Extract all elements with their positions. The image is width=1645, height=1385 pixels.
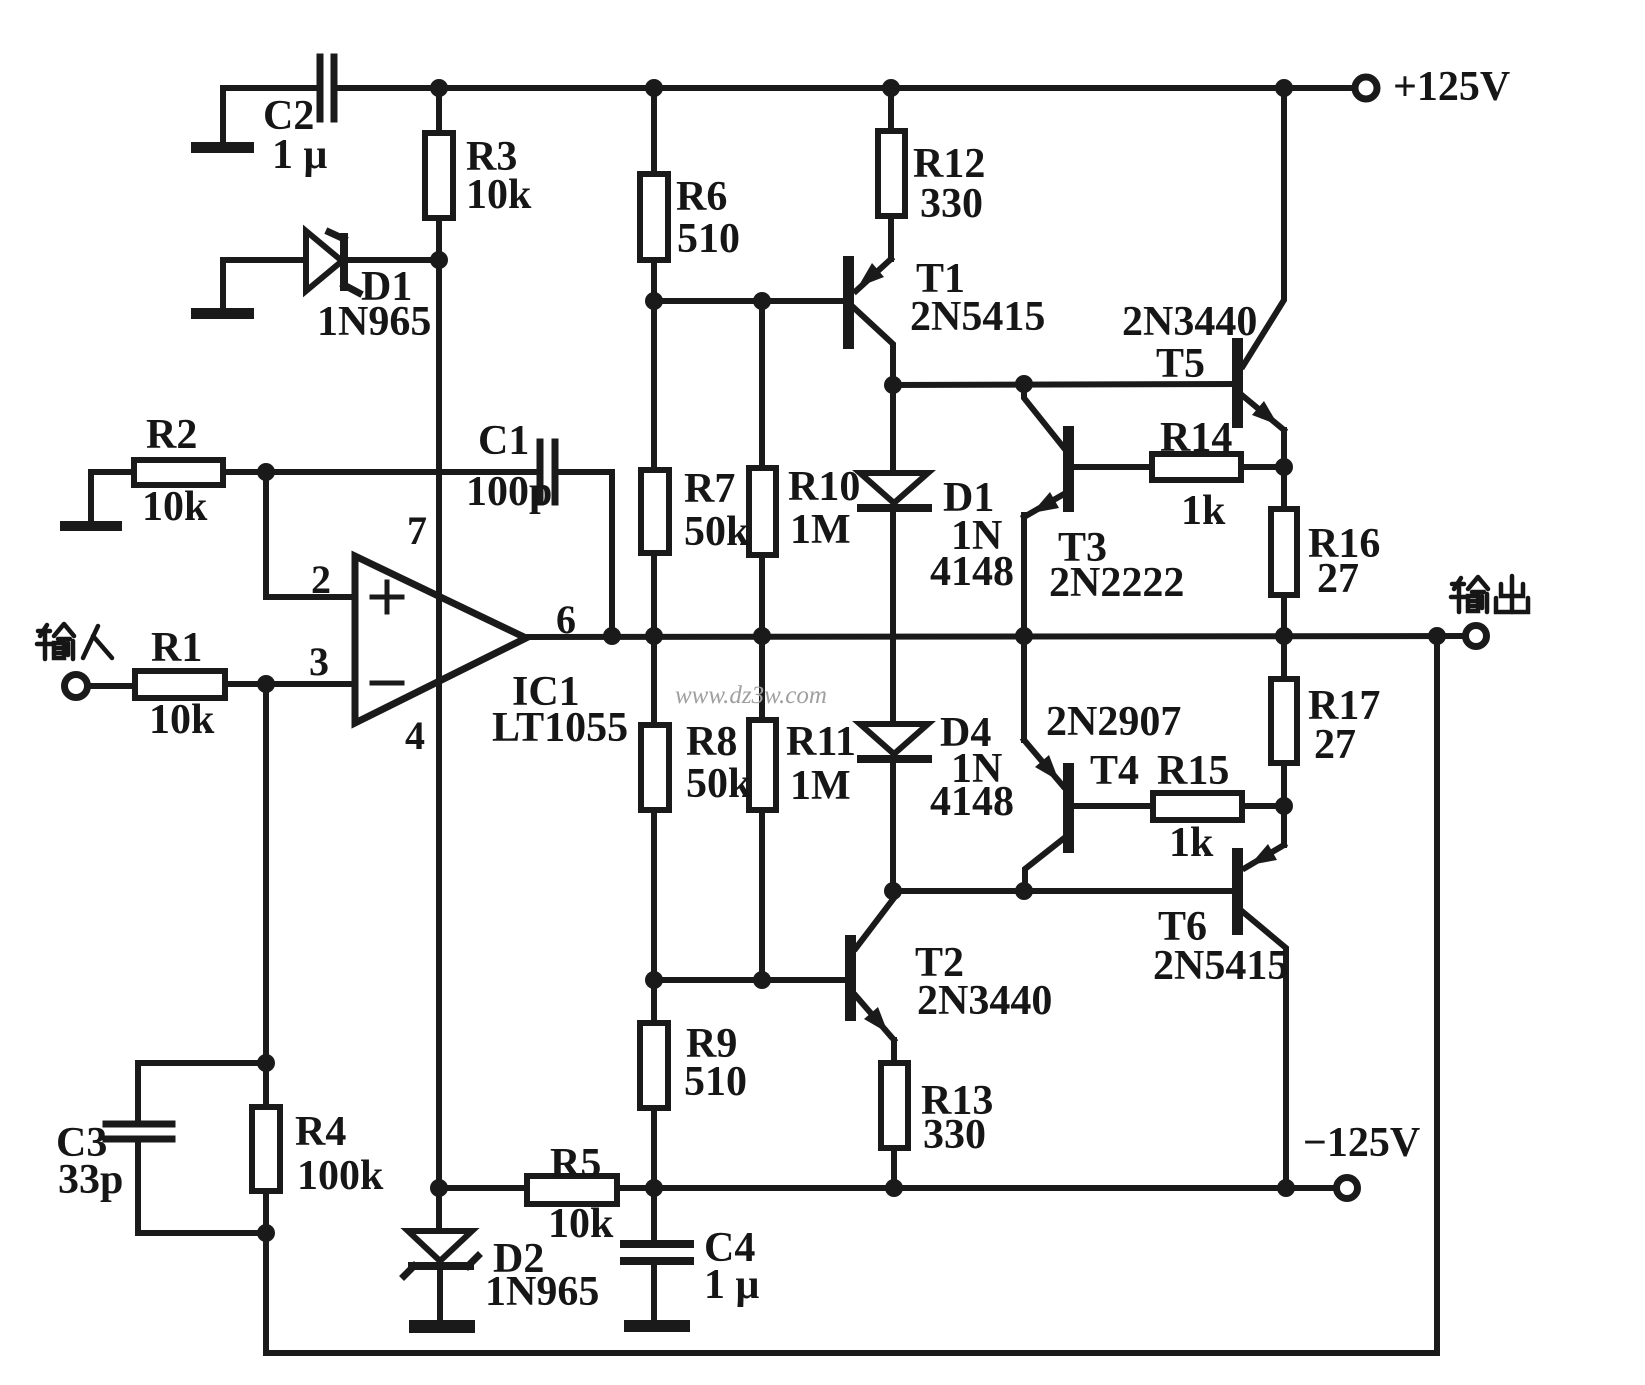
terminal -125V <box>1337 1178 1358 1199</box>
svg-text:4148: 4148 <box>930 779 1014 825</box>
diode D2 1N965 zener <box>404 1188 478 1320</box>
wire C3 bottom lead <box>138 1142 266 1233</box>
capacitor C3 <box>106 1124 172 1139</box>
capacitor C4 <box>624 1244 690 1261</box>
svg-text:3: 3 <box>309 639 329 684</box>
node +125V rail / T5 collector <box>1275 79 1293 97</box>
svg-text:6: 6 <box>556 597 576 642</box>
svg-text:2N3440: 2N3440 <box>917 978 1052 1024</box>
wire C4 top lead <box>651 1188 657 1240</box>
svg-text:−125V: −125V <box>1303 1120 1420 1166</box>
svg-text:1k: 1k <box>1169 820 1214 866</box>
resistor R4 <box>252 1107 280 1353</box>
svg-text:4148: 4148 <box>930 549 1014 595</box>
svg-text:T4: T4 <box>1090 748 1139 794</box>
node T5 emitter / R14 / R16 <box>1275 458 1293 476</box>
svg-text:510: 510 <box>677 216 740 262</box>
wire T3 base to R14 <box>1074 464 1152 470</box>
wire inverting input (pin 3) <box>266 681 355 687</box>
wire R2 ground branch <box>91 472 134 522</box>
wire T6 base line <box>893 888 1232 894</box>
ground (C4) <box>624 1320 690 1332</box>
node R7-R8 / output line <box>645 627 663 645</box>
svg-text:2: 2 <box>311 557 331 602</box>
resistor R1 <box>90 671 266 698</box>
svg-text:R1: R1 <box>151 625 202 671</box>
node feedback / output line <box>1428 627 1446 645</box>
svg-text:50k: 50k <box>684 509 750 555</box>
svg-text:2N5415: 2N5415 <box>1153 943 1288 989</box>
svg-text:2N2222: 2N2222 <box>1049 560 1184 606</box>
svg-text:33p: 33p <box>58 1157 123 1203</box>
wire C3 branch <box>138 1063 266 1121</box>
node R6 / T1 base <box>645 292 663 310</box>
svg-text:27: 27 <box>1317 556 1359 602</box>
node D4 / T2 collector <box>884 882 902 900</box>
svg-text:27: 27 <box>1314 722 1356 768</box>
svg-text:1k: 1k <box>1181 488 1226 534</box>
svg-text:2N5415: 2N5415 <box>910 294 1045 340</box>
transistor T2 2N3440 <box>845 891 894 1063</box>
op-amp U1 LT1055 <box>355 556 526 723</box>
svg-text:10k: 10k <box>142 484 208 530</box>
resistor R15 <box>1075 793 1284 820</box>
resistor R7 <box>641 301 669 725</box>
wire T1 base line <box>654 298 845 304</box>
node T6 emitter / R15 / R17 <box>1275 797 1293 815</box>
svg-text:100p: 100p <box>466 469 552 515</box>
diode D1 1N965 zener <box>306 231 359 293</box>
svg-text:1M: 1M <box>790 507 851 553</box>
wire C1 feedback line <box>266 469 540 475</box>
ground (R2) <box>60 521 122 531</box>
wire T2 base line <box>654 977 846 983</box>
wire -125V rail <box>439 1185 527 1191</box>
svg-text:www.dz3w.com: www.dz3w.com <box>675 682 827 709</box>
node R11 / T2 base line <box>753 971 771 989</box>
resistor R3 <box>425 88 453 260</box>
svg-text:2N3440: 2N3440 <box>1122 299 1257 345</box>
node R16-R17 / output line <box>1275 627 1293 645</box>
transistor T4 2N2907 <box>1024 636 1074 891</box>
node R2 / pin2 <box>257 463 275 481</box>
op-amp plus sign <box>372 582 402 612</box>
svg-text:+125V: +125V <box>1393 64 1510 110</box>
svg-text:R5: R5 <box>550 1141 601 1187</box>
wire D1 zener anode lead <box>223 260 306 308</box>
transistor T1 2N5415 <box>843 256 893 386</box>
node T6 collector / -125V rail <box>1277 1179 1295 1197</box>
resistor R6 column top <box>640 88 668 301</box>
svg-text:1 μ: 1 μ <box>704 1262 760 1308</box>
svg-text:T5: T5 <box>1156 341 1205 387</box>
node D1 zener / R3 <box>430 251 448 269</box>
wire C4 bottom lead <box>651 1264 657 1320</box>
svg-text:2N2907: 2N2907 <box>1046 699 1181 745</box>
capacitor C2 <box>320 57 334 119</box>
resistor R8 <box>641 725 669 980</box>
wire T5 base line <box>893 384 1232 385</box>
wire +125V rail <box>336 85 1351 91</box>
resistor R16 <box>1271 467 1297 636</box>
ground (C2) <box>191 142 254 153</box>
transistor T6 2N5415 <box>1232 806 1286 1188</box>
svg-text:330: 330 <box>920 181 983 227</box>
wire C2 left lead <box>223 88 320 143</box>
wire bottom feedback <box>266 636 1437 1353</box>
transistor T3 2N2222 <box>1024 386 1074 636</box>
resistor R9 <box>640 980 668 1188</box>
node T4 collector / T6 base <box>1015 882 1033 900</box>
svg-text:10k: 10k <box>149 697 215 743</box>
ground (D1 zener) <box>191 308 254 319</box>
node C3 top / R4 <box>257 1054 275 1072</box>
svg-text:10k: 10k <box>548 1201 614 1247</box>
svg-text:C1: C1 <box>478 418 529 464</box>
terminal output <box>1466 626 1487 647</box>
node +125V rail / R12 <box>882 79 900 97</box>
transistor T5 2N3440 <box>1232 88 1284 467</box>
capacitor C1 <box>540 442 555 502</box>
node +125V rail / R6 <box>645 79 663 97</box>
node R10-R11 / output line <box>753 627 771 645</box>
wire R1 node down to R4 <box>263 684 269 1107</box>
svg-text:R10: R10 <box>788 464 860 510</box>
terminal +125V <box>1355 77 1377 99</box>
diode D1 1N4148 <box>860 385 928 724</box>
resistor R2 <box>134 460 266 485</box>
node R1 / pin3 <box>257 675 275 693</box>
svg-text:R15: R15 <box>1157 748 1229 794</box>
resistor R10 <box>749 301 776 720</box>
svg-text:1N965: 1N965 <box>485 1269 599 1315</box>
svg-text:R11: R11 <box>786 719 856 765</box>
op-amp minus sign <box>372 681 402 686</box>
wire output line (pin 6) <box>526 636 1462 637</box>
resistor R13 <box>881 1063 908 1188</box>
svg-text:R6: R6 <box>676 174 727 220</box>
wire D1 zener cathode lead <box>346 257 439 263</box>
svg-text:7: 7 <box>407 508 427 553</box>
svg-text:1 μ: 1 μ <box>272 132 328 178</box>
svg-text:LT1055: LT1055 <box>492 705 628 751</box>
node R10 / T1 base line <box>753 292 771 310</box>
node T3 collector / T5 base <box>1015 375 1033 393</box>
svg-text:R7: R7 <box>684 466 735 512</box>
svg-text:R14: R14 <box>1160 415 1232 461</box>
svg-text:R4: R4 <box>295 1109 346 1155</box>
terminal input <box>65 675 88 698</box>
resistor R5 <box>527 1176 617 1204</box>
node T3-T4 emitters / output line <box>1015 627 1033 645</box>
resistor R17 <box>1271 636 1297 806</box>
svg-text:10k: 10k <box>466 172 532 218</box>
svg-text:R8: R8 <box>686 719 737 765</box>
svg-text:330: 330 <box>923 1112 986 1158</box>
node D2 / R5 <box>430 1179 448 1197</box>
wire -125V rail right <box>617 1185 1333 1191</box>
svg-text:1N965: 1N965 <box>317 299 431 345</box>
label input (Chinese) 输入 <box>37 624 112 659</box>
resistor R12 <box>878 88 905 259</box>
wire non-inverting input (pin 2) <box>266 472 355 597</box>
resistor R14 <box>1152 454 1284 480</box>
resistor R11 <box>749 720 776 980</box>
node R8-R9 / T2 base <box>645 971 663 989</box>
svg-text:R2: R2 <box>146 412 197 458</box>
node C3 bottom / R4 <box>257 1224 275 1242</box>
svg-text:1M: 1M <box>790 763 851 809</box>
diode D4 1N4148 <box>860 724 928 891</box>
wire V+ / V- supply column through op-amp <box>436 260 442 1188</box>
node C1 / output line <box>603 627 621 645</box>
svg-text:100k: 100k <box>297 1153 384 1199</box>
svg-text:4: 4 <box>405 713 425 758</box>
node T1 collector / D1 <box>884 376 902 394</box>
node R5 / R9 / C4 <box>645 1179 663 1197</box>
svg-text:510: 510 <box>684 1059 747 1105</box>
node +125V rail / R3 <box>430 79 448 97</box>
ground (D2) <box>409 1320 475 1333</box>
node R13 / -125V rail <box>885 1179 903 1197</box>
wire C1 to output node <box>557 472 612 636</box>
label output (Chinese) 输出 <box>1451 576 1528 612</box>
svg-text:50k: 50k <box>686 761 752 807</box>
